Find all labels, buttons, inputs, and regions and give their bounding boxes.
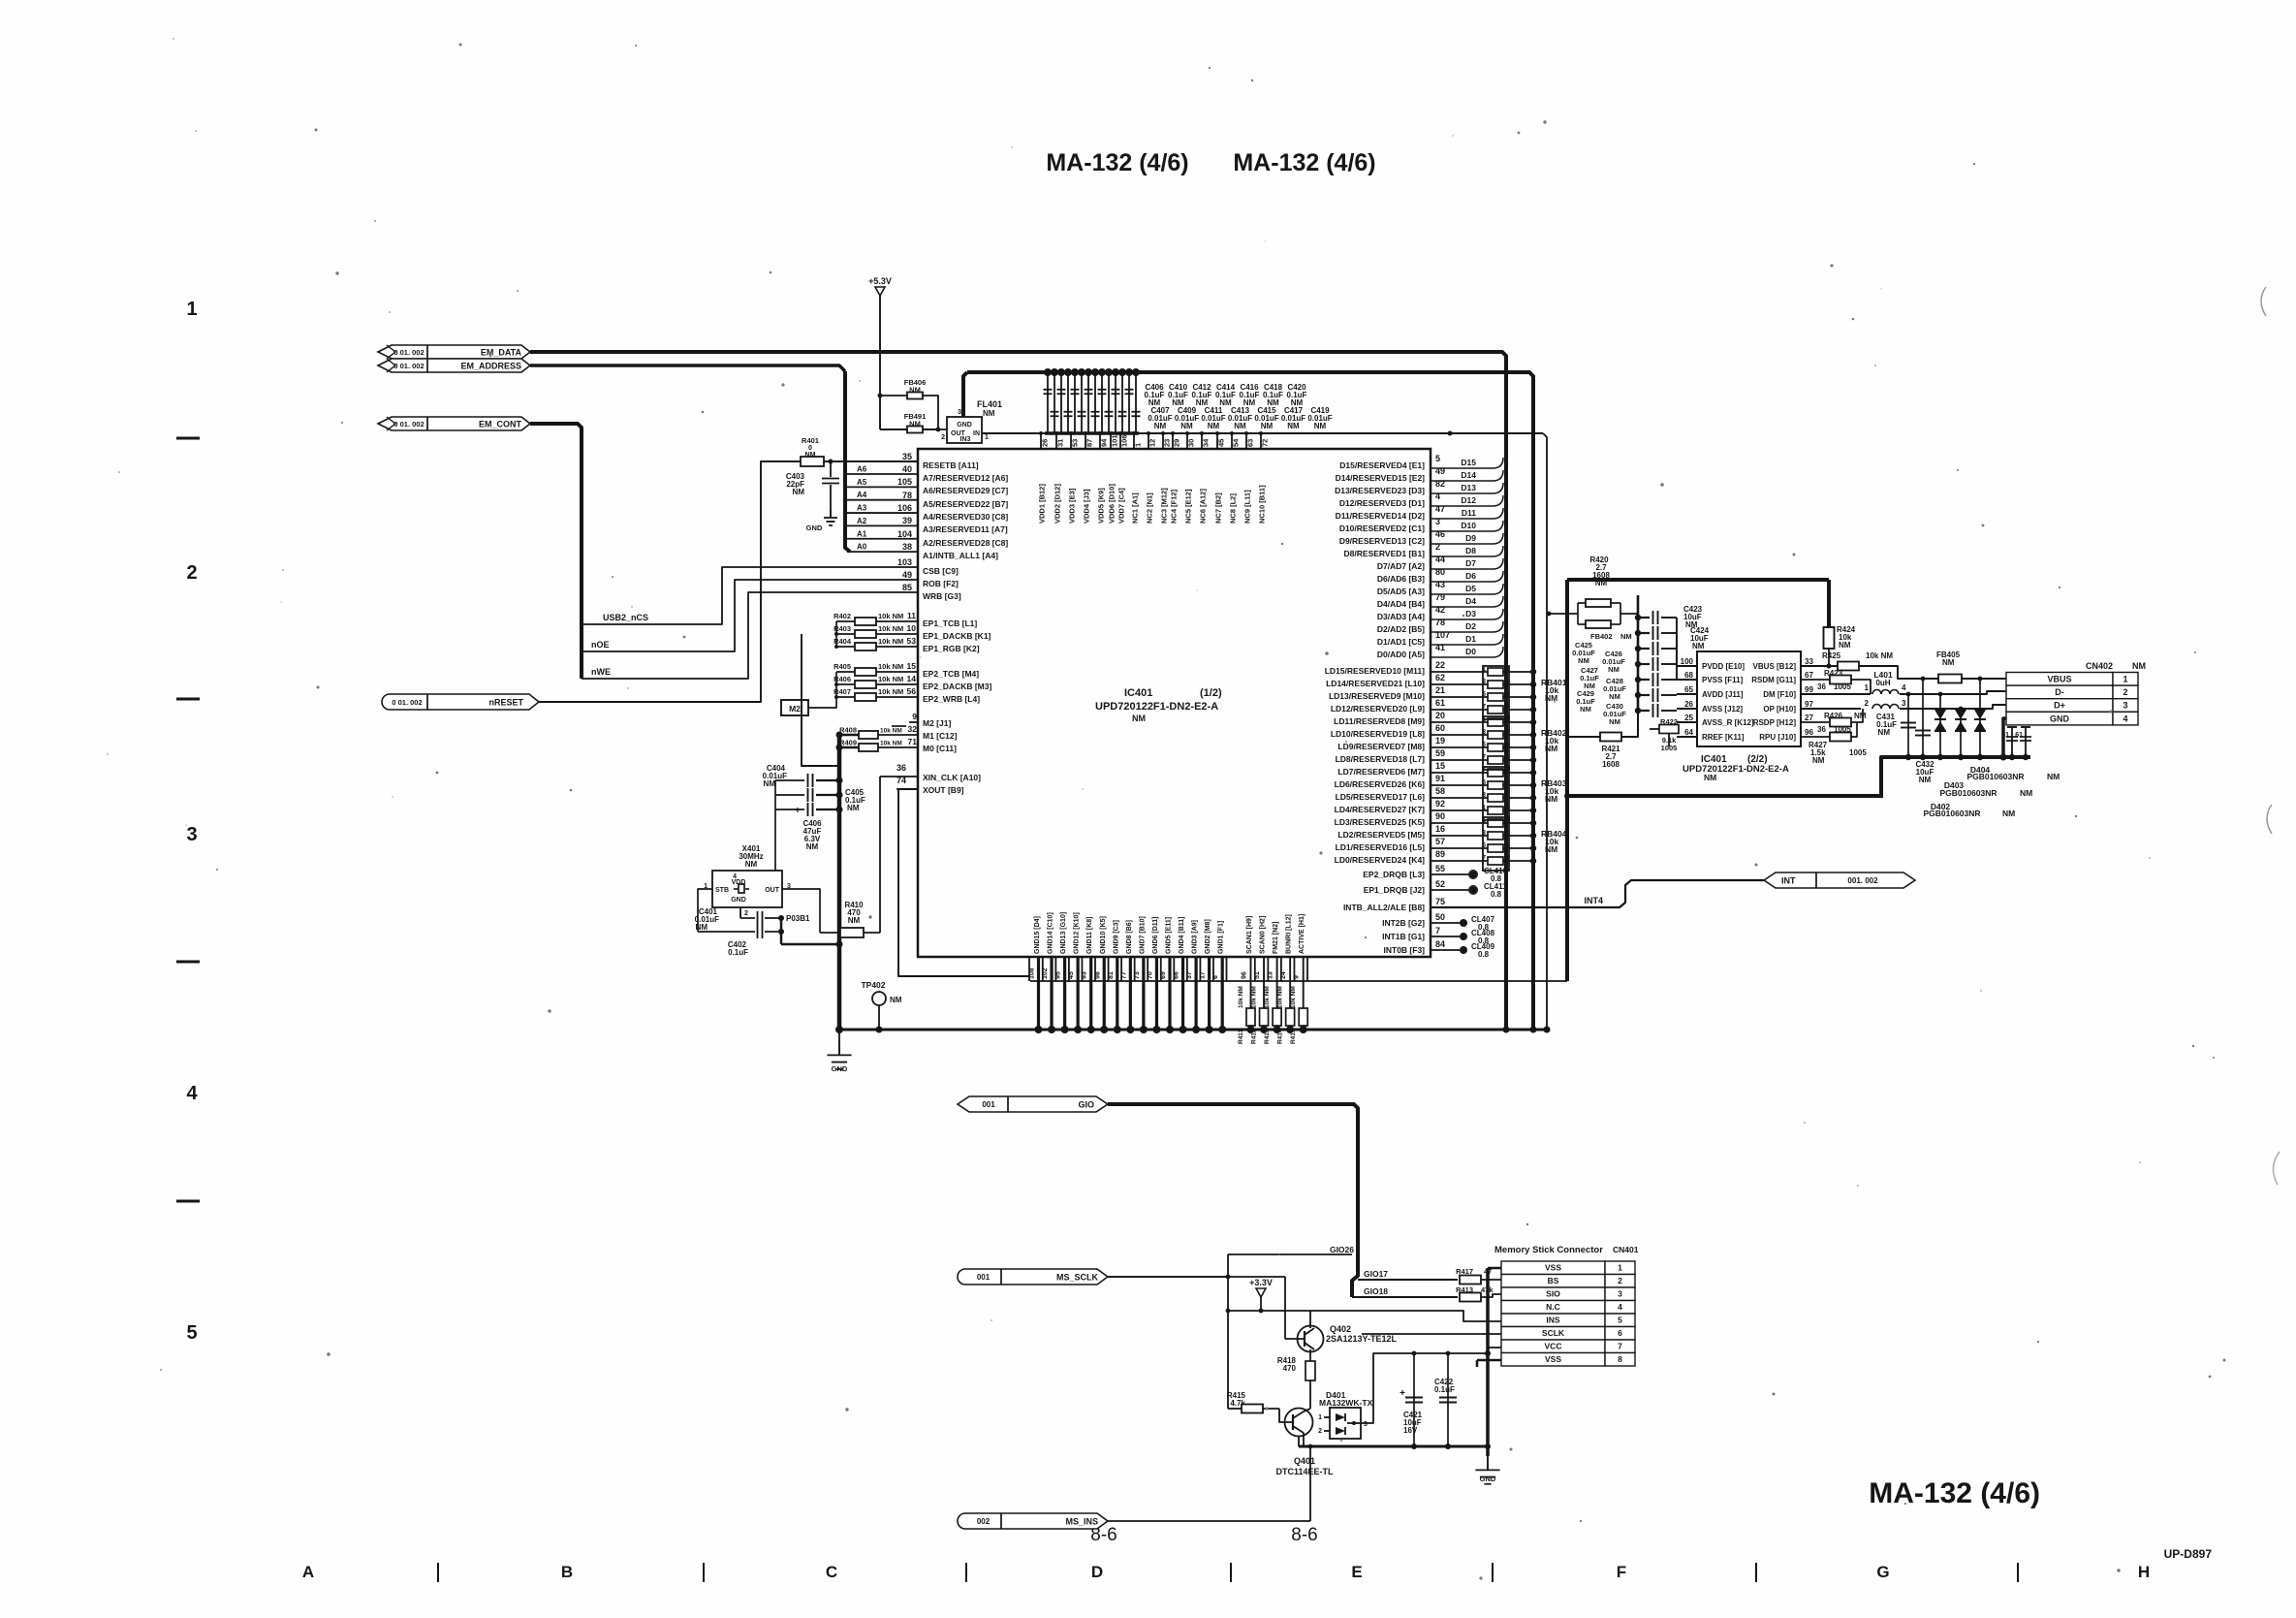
svg-text:107: 107 — [1435, 630, 1450, 640]
svg-text:0uH: 0uH — [1875, 679, 1890, 687]
svg-text:49: 49 — [902, 570, 912, 580]
svg-text:D15/RESERVED4 [E1]: D15/RESERVED4 [E1] — [1339, 460, 1425, 470]
svg-text:H: H — [2138, 1563, 2150, 1581]
svg-text:66: 66 — [1174, 971, 1180, 979]
svg-text:10k NM: 10k NM — [878, 662, 903, 671]
svg-text:R423: R423 — [1824, 669, 1843, 678]
svg-text:MS_INS: MS_INS — [1065, 1517, 1098, 1527]
svg-text:NC3 [M12]: NC3 [M12] — [1160, 488, 1169, 523]
svg-text:G: G — [1876, 1563, 1889, 1581]
svg-text:EM_CONT: EM_CONT — [479, 420, 522, 429]
svg-text:71: 71 — [908, 737, 918, 746]
svg-text:EP1_RGB [K2]: EP1_RGB [K2] — [923, 644, 980, 653]
svg-text:32: 32 — [908, 724, 918, 734]
svg-text:+5.3V: +5.3V — [868, 276, 892, 286]
svg-text:FM21 [N2]: FM21 [N2] — [1273, 922, 1279, 954]
svg-text:27: 27 — [1805, 714, 1813, 722]
svg-text:D9/RESERVED13 [C2]: D9/RESERVED13 [C2] — [1339, 536, 1425, 546]
svg-text:NM: NM — [1208, 422, 1220, 430]
svg-text:D12: D12 — [1461, 495, 1476, 505]
svg-text:1: 1 — [2123, 675, 2127, 684]
svg-text:NM: NM — [1234, 422, 1246, 430]
svg-text:58: 58 — [1435, 786, 1445, 796]
svg-text:NM: NM — [1839, 641, 1851, 650]
svg-text:NM: NM — [1132, 714, 1146, 723]
svg-text:EP2_TCB [M4]: EP2_TCB [M4] — [923, 669, 979, 679]
svg-text:2: 2 — [941, 434, 945, 441]
svg-text:10k NM: 10k NM — [1264, 986, 1271, 1008]
svg-text:10k NM: 10k NM — [1866, 651, 1893, 660]
svg-text:LD14/RESERVED21 [L10]: LD14/RESERVED21 [L10] — [1326, 679, 1425, 688]
svg-text:13: 13 — [1268, 971, 1274, 979]
svg-text:RREF [K11]: RREF [K11] — [1702, 733, 1745, 742]
svg-text:73: 73 — [1134, 971, 1141, 979]
svg-text:36: 36 — [1817, 682, 1826, 691]
svg-text:10k NM: 10k NM — [878, 637, 903, 646]
svg-text:NM: NM — [1578, 656, 1589, 665]
svg-text:99: 99 — [1805, 685, 1813, 694]
svg-text:LD4/RESERVED27 [K7]: LD4/RESERVED27 [K7] — [1335, 805, 1426, 814]
svg-text:GND11 [K8]: GND11 [K8] — [1086, 916, 1093, 954]
svg-text:26: 26 — [1684, 700, 1693, 709]
svg-text:4: 4 — [1435, 492, 1440, 501]
svg-text:D13: D13 — [1461, 483, 1476, 492]
svg-text:NC6 [A12]: NC6 [A12] — [1199, 489, 1208, 523]
svg-text:0 01. 002: 0 01. 002 — [393, 348, 424, 357]
svg-text:NM: NM — [2047, 772, 2060, 781]
svg-text:VSS: VSS — [1545, 1354, 1561, 1364]
svg-text:D8/RESERVED1 [B1]: D8/RESERVED1 [B1] — [1344, 549, 1426, 558]
svg-text:A4/RESERVED30 [C8]: A4/RESERVED30 [C8] — [923, 512, 1008, 522]
svg-text:MA132WK-TX: MA132WK-TX — [1319, 1398, 1373, 1408]
svg-text:LD10/RESERVED19 [L8]: LD10/RESERVED19 [L8] — [1331, 729, 1425, 739]
svg-text:2: 2 — [1435, 542, 1440, 552]
svg-text:NM: NM — [1609, 717, 1620, 726]
svg-text:60: 60 — [1435, 723, 1445, 733]
svg-text:10k NM: 10k NM — [880, 728, 902, 735]
svg-text:56: 56 — [907, 686, 917, 696]
svg-text:NM: NM — [1692, 642, 1705, 650]
svg-text:9: 9 — [1294, 975, 1301, 979]
svg-text:BUNRI [L12]: BUNRI [L12] — [1286, 914, 1293, 954]
svg-text:GND: GND — [731, 897, 746, 904]
svg-text:10k NM: 10k NM — [880, 741, 902, 747]
svg-text:19: 19 — [1435, 736, 1445, 746]
svg-text:10k NM: 10k NM — [878, 687, 903, 696]
svg-text:98: 98 — [1094, 971, 1101, 979]
svg-text:79: 79 — [1435, 592, 1445, 602]
svg-text:A5: A5 — [857, 478, 867, 487]
svg-text:D1/AD1 [C5]: D1/AD1 [C5] — [1377, 637, 1425, 647]
svg-text:NC1 [A1]: NC1 [A1] — [1131, 492, 1140, 523]
svg-text:WRB [G3]: WRB [G3] — [923, 591, 961, 601]
svg-text:DM [F10]: DM [F10] — [1763, 690, 1796, 699]
svg-text:10k NM: 10k NM — [1290, 986, 1297, 1008]
svg-text:69: 69 — [1160, 971, 1167, 979]
svg-text:GND13 [G10]: GND13 [G10] — [1060, 912, 1067, 954]
svg-text:INT0B [F3]: INT0B [F3] — [1384, 945, 1426, 955]
svg-text:2: 2 — [1318, 1428, 1322, 1435]
svg-text:EM_ADDRESS: EM_ADDRESS — [460, 362, 521, 371]
svg-text:NM: NM — [2002, 809, 2015, 818]
svg-text:UP-D897: UP-D897 — [2164, 1547, 2213, 1561]
svg-text:47: 47 — [1435, 504, 1445, 514]
svg-text:2: 2 — [2123, 687, 2127, 697]
svg-text:80: 80 — [1435, 567, 1445, 577]
svg-text:24: 24 — [1280, 971, 1287, 979]
svg-text:52: 52 — [1435, 879, 1445, 889]
svg-text:106: 106 — [897, 503, 912, 513]
svg-text:A3: A3 — [857, 504, 867, 513]
svg-text:LD1/RESERVED16 [L5]: LD1/RESERVED16 [L5] — [1336, 842, 1426, 852]
svg-text:A2/RESERVED28 [C8]: A2/RESERVED28 [C8] — [923, 538, 1008, 548]
svg-text:D0/AD0 [A5]: D0/AD0 [A5] — [1377, 650, 1425, 659]
svg-text:GND5 [E11]: GND5 [E11] — [1166, 917, 1173, 954]
svg-text:NM: NM — [1154, 422, 1167, 430]
svg-text:N.C: N.C — [1546, 1302, 1560, 1312]
svg-text:0.1uF: 0.1uF — [1434, 1385, 1455, 1394]
svg-text:6: 6 — [1212, 975, 1219, 979]
svg-text:001: 001 — [977, 1273, 991, 1282]
svg-text:EP2_DRQB [L3]: EP2_DRQB [L3] — [1363, 870, 1425, 879]
svg-text:45: 45 — [1068, 971, 1075, 979]
svg-text:EP1_DACKB [K1]: EP1_DACKB [K1] — [923, 631, 991, 641]
svg-text:6: 6 — [1618, 1328, 1622, 1338]
svg-text:VDD3 [E3]: VDD3 [E3] — [1068, 488, 1077, 523]
svg-text:AVSS [J12]: AVSS [J12] — [1702, 705, 1743, 714]
svg-text:LD5/RESERVED17 [L6]: LD5/RESERVED17 [L6] — [1336, 792, 1426, 802]
svg-text:65: 65 — [1684, 685, 1693, 694]
svg-text:10k NM: 10k NM — [878, 624, 903, 633]
svg-text:LD12/RESERVED20 [L9]: LD12/RESERVED20 [L9] — [1331, 704, 1425, 714]
svg-text:100: 100 — [1681, 657, 1694, 666]
svg-text:GND15 [D4]: GND15 [D4] — [1034, 916, 1041, 954]
svg-text:A1/INTB_ALL1 [A4]: A1/INTB_ALL1 [A4] — [923, 551, 998, 560]
svg-text:25: 25 — [1684, 714, 1693, 722]
svg-text:104: 104 — [897, 529, 912, 539]
svg-text:90: 90 — [1435, 811, 1445, 821]
svg-text:62: 62 — [1435, 673, 1445, 682]
svg-text:IC401: IC401 — [1124, 687, 1152, 699]
svg-text:0 01. 002: 0 01. 002 — [393, 362, 424, 370]
svg-text:78: 78 — [1435, 618, 1445, 627]
svg-text:102: 102 — [1042, 968, 1049, 979]
svg-text:M1 [C12]: M1 [C12] — [923, 731, 958, 741]
svg-text:VBUS [B12]: VBUS [B12] — [1753, 662, 1797, 671]
svg-text:LD6/RESERVED26 [K6]: LD6/RESERVED26 [K6] — [1335, 779, 1426, 789]
svg-text:LD11/RESERVED8 [M9]: LD11/RESERVED8 [M9] — [1334, 716, 1425, 726]
svg-text:1005: 1005 — [1661, 744, 1678, 752]
svg-text:50: 50 — [1435, 912, 1445, 922]
svg-text:37: 37 — [1186, 971, 1193, 979]
svg-text:D10: D10 — [1461, 521, 1476, 530]
svg-text:3: 3 — [1435, 517, 1440, 526]
svg-text:NM: NM — [1545, 693, 1557, 703]
svg-text:INT4: INT4 — [1584, 896, 1603, 905]
svg-text:2: 2 — [744, 910, 748, 917]
svg-text:BS: BS — [1548, 1276, 1559, 1285]
svg-text:4: 4 — [1618, 1302, 1622, 1312]
svg-text:11: 11 — [907, 611, 916, 620]
svg-text:MA-132 (4/6): MA-132 (4/6) — [1046, 149, 1188, 176]
svg-text:7: 7 — [1435, 926, 1440, 936]
svg-text:NM: NM — [1180, 422, 1193, 430]
svg-text:GND: GND — [806, 523, 823, 532]
svg-text:PGB010603NR: PGB010603NR — [1939, 788, 1997, 798]
svg-text:NM: NM — [848, 916, 861, 925]
svg-text:7: 7 — [1618, 1342, 1622, 1351]
svg-text:51: 51 — [2001, 732, 2009, 739]
svg-text:GND14 [C10]: GND14 [C10] — [1048, 912, 1054, 954]
svg-text:EP1_DRQB [J2]: EP1_DRQB [J2] — [1364, 885, 1425, 895]
svg-text:NM: NM — [890, 996, 902, 1004]
svg-text:97: 97 — [1805, 700, 1813, 709]
svg-text:VBUS: VBUS — [2047, 675, 2071, 684]
svg-text:1: 1 — [1318, 1414, 1322, 1421]
svg-text:40: 40 — [902, 464, 912, 474]
svg-text:NM: NM — [1287, 422, 1300, 430]
svg-text:61: 61 — [1435, 698, 1445, 708]
svg-text:NM: NM — [1620, 632, 1632, 641]
svg-text:VDD1 [B12]: VDD1 [B12] — [1038, 484, 1047, 523]
svg-text:SIO: SIO — [1546, 1289, 1560, 1299]
svg-text:75: 75 — [1435, 897, 1445, 906]
svg-text:NM: NM — [1580, 705, 1591, 714]
svg-text:53: 53 — [907, 636, 917, 646]
svg-text:CSB [C9]: CSB [C9] — [923, 566, 959, 576]
svg-text:15: 15 — [1435, 761, 1445, 771]
svg-text:D: D — [1091, 1563, 1103, 1581]
svg-text:D+: D+ — [2054, 701, 2065, 711]
svg-text:NM: NM — [805, 452, 816, 459]
svg-text:51: 51 — [1254, 971, 1261, 979]
svg-text:470: 470 — [1283, 1364, 1297, 1373]
svg-text:GND6 [D11]: GND6 [D11] — [1152, 916, 1159, 954]
svg-text:VCC: VCC — [1545, 1342, 1562, 1351]
svg-text:33: 33 — [1805, 657, 1813, 666]
svg-text:D13/RESERVED23 [D3]: D13/RESERVED23 [D3] — [1335, 486, 1425, 495]
svg-text:64: 64 — [1684, 728, 1693, 737]
svg-text:CN402: CN402 — [2086, 661, 2113, 671]
svg-text:LD0/RESERVED24 [K4]: LD0/RESERVED24 [K4] — [1335, 855, 1426, 865]
svg-text:NC7 [B2]: NC7 [B2] — [1214, 492, 1223, 523]
svg-text:D3: D3 — [1465, 609, 1476, 619]
svg-text:VDD7 [C4]: VDD7 [C4] — [1117, 488, 1126, 523]
svg-text:8-6: 8-6 — [1291, 1525, 1317, 1545]
svg-text:D15: D15 — [1461, 458, 1476, 467]
svg-text:M2: M2 — [789, 704, 801, 714]
svg-text:A5/RESERVED22 [B7]: A5/RESERVED22 [B7] — [923, 499, 1008, 509]
svg-text:STB: STB — [715, 887, 729, 894]
svg-text:GND3 [A9]: GND3 [A9] — [1192, 920, 1199, 954]
svg-text:D-: D- — [2055, 687, 2064, 697]
svg-text:D7: D7 — [1465, 558, 1476, 568]
svg-text:INTB_ALL2/ALE [B8]: INTB_ALL2/ALE [B8] — [1343, 903, 1425, 912]
svg-text:1005: 1005 — [1834, 682, 1851, 691]
svg-text:0.8: 0.8 — [1491, 890, 1502, 899]
svg-text:A0: A0 — [857, 543, 867, 552]
svg-text:RESETB [A11]: RESETB [A11] — [923, 460, 979, 470]
svg-text:Q402: Q402 — [1330, 1324, 1351, 1334]
svg-text:INT2B [G2]: INT2B [G2] — [1382, 918, 1425, 928]
svg-text:GND8 [B6]: GND8 [B6] — [1126, 920, 1133, 954]
svg-text:10k NM: 10k NM — [878, 612, 903, 620]
svg-text:0: 0 — [808, 445, 812, 452]
svg-text:GND2 [M8]: GND2 [M8] — [1205, 919, 1211, 954]
svg-text:3: 3 — [1902, 699, 1906, 708]
svg-text:5: 5 — [1435, 454, 1440, 463]
svg-text:3: 3 — [2123, 701, 2127, 711]
svg-text:NM: NM — [1878, 728, 1891, 737]
svg-text:GND7 [B10]: GND7 [B10] — [1139, 916, 1146, 954]
svg-text:EP2_DACKB [M3]: EP2_DACKB [M3] — [923, 682, 991, 691]
svg-text:D14: D14 — [1461, 470, 1476, 480]
svg-text:44: 44 — [1435, 555, 1445, 564]
svg-text:96: 96 — [1805, 728, 1813, 737]
svg-text:EP1_TCB [L1]: EP1_TCB [L1] — [923, 619, 977, 628]
svg-text:81: 81 — [1108, 971, 1115, 979]
svg-text:+: + — [795, 806, 801, 816]
svg-text:0 01. 002: 0 01. 002 — [393, 420, 424, 428]
svg-text:LD9/RESERVED7 [M8]: LD9/RESERVED7 [M8] — [1337, 742, 1425, 751]
svg-text:70: 70 — [1147, 971, 1153, 979]
svg-text:MA-132 (4/6): MA-132 (4/6) — [1869, 1477, 2040, 1509]
svg-text:GND10 [K5]: GND10 [K5] — [1100, 916, 1107, 954]
svg-text:A2: A2 — [857, 517, 867, 525]
svg-text:SCLK: SCLK — [1542, 1328, 1565, 1338]
svg-text:(1/2): (1/2) — [1200, 687, 1222, 699]
svg-text:R401: R401 — [802, 436, 819, 445]
svg-text:10k NM: 10k NM — [1277, 986, 1284, 1008]
svg-text:A3/RESERVED11 [A7]: A3/RESERVED11 [A7] — [923, 524, 1008, 534]
svg-text:R405: R405 — [833, 662, 851, 671]
svg-text:EM_DATA: EM_DATA — [481, 348, 522, 358]
svg-text:M0 [C11]: M0 [C11] — [923, 744, 957, 753]
svg-text:XOUT [B9]: XOUT [B9] — [923, 785, 964, 795]
svg-text:NC2 [N1]: NC2 [N1] — [1146, 492, 1154, 523]
svg-text:82: 82 — [1435, 479, 1445, 489]
svg-text:0.8: 0.8 — [1478, 950, 1490, 959]
svg-text:NM: NM — [1812, 756, 1825, 765]
svg-text:21: 21 — [1435, 685, 1445, 695]
svg-text:NM: NM — [1261, 422, 1274, 430]
svg-text:59: 59 — [1435, 748, 1445, 758]
svg-text:5: 5 — [1618, 1316, 1622, 1325]
svg-text:ACTIVE [H1]: ACTIVE [H1] — [1299, 914, 1305, 954]
svg-text:2SA1213Y-TE12L: 2SA1213Y-TE12L — [1326, 1334, 1398, 1344]
svg-text:D4/AD4 [B4]: D4/AD4 [B4] — [1377, 599, 1425, 609]
svg-text:C: C — [826, 1563, 837, 1581]
svg-text:4: 4 — [1902, 683, 1906, 692]
svg-text:4: 4 — [186, 1083, 198, 1104]
svg-text:1005: 1005 — [1849, 748, 1867, 757]
svg-text:55: 55 — [1435, 864, 1445, 873]
svg-text:8: 8 — [1618, 1354, 1622, 1364]
svg-text:R411: R411 — [1238, 1029, 1244, 1044]
svg-text:SCAN0 [H2]: SCAN0 [H2] — [1260, 916, 1267, 954]
svg-text:SCAN1 [H9]: SCAN1 [H9] — [1246, 916, 1253, 954]
svg-text:15: 15 — [907, 661, 917, 671]
svg-text:1: 1 — [985, 434, 989, 441]
svg-text:A6/RESERVED29 [C7]: A6/RESERVED29 [C7] — [923, 486, 1008, 495]
svg-text:INT: INT — [1781, 876, 1796, 886]
svg-text:3: 3 — [958, 409, 961, 416]
svg-text:1608: 1608 — [1602, 760, 1620, 769]
svg-text:16: 16 — [1435, 824, 1445, 834]
svg-text:NM: NM — [1609, 692, 1620, 701]
svg-text:57: 57 — [1435, 837, 1445, 846]
svg-text:IN: IN — [973, 430, 980, 437]
svg-text:0.1uF: 0.1uF — [728, 948, 748, 957]
svg-text:002: 002 — [977, 1517, 991, 1526]
svg-text:35: 35 — [902, 452, 912, 461]
svg-text:Memory Stick Connector: Memory Stick Connector — [1494, 1245, 1603, 1255]
svg-text:43: 43 — [1435, 580, 1445, 589]
svg-text:AVDD [J11]: AVDD [J11] — [1702, 690, 1744, 699]
svg-text:A4: A4 — [857, 491, 867, 499]
svg-text:E: E — [1351, 1563, 1362, 1581]
svg-text:TP402: TP402 — [861, 980, 885, 990]
svg-text:4: 4 — [2123, 714, 2127, 723]
svg-text:EP2_WRB [L4]: EP2_WRB [L4] — [923, 694, 980, 704]
svg-text:OP [H10]: OP [H10] — [1763, 705, 1796, 714]
svg-text:84: 84 — [1435, 939, 1445, 949]
svg-text:P03B1: P03B1 — [786, 914, 810, 923]
svg-text:10: 10 — [907, 623, 917, 633]
svg-text:D6/AD6 [B3]: D6/AD6 [B3] — [1377, 574, 1425, 584]
svg-text:NM: NM — [745, 860, 758, 869]
svg-text:14: 14 — [907, 674, 917, 683]
svg-text:NM: NM — [1314, 422, 1327, 430]
svg-text:61: 61 — [2015, 732, 2023, 739]
svg-text:LD8/RESERVED18 [L7]: LD8/RESERVED18 [L7] — [1336, 754, 1426, 764]
svg-text:PVDD [E10]: PVDD [E10] — [1702, 662, 1745, 671]
svg-text:NM: NM — [1919, 776, 1932, 784]
svg-text:49: 49 — [1435, 466, 1445, 476]
svg-text:GIO17: GIO17 — [1364, 1269, 1388, 1279]
svg-text:LD7/RESERVED6 [M7]: LD7/RESERVED6 [M7] — [1337, 767, 1425, 777]
svg-text:NM: NM — [1545, 744, 1557, 753]
svg-text:LD15/RESERVED10 [M11]: LD15/RESERVED10 [M11] — [1325, 666, 1425, 676]
svg-text:38: 38 — [902, 542, 912, 552]
svg-text:D5/AD5 [A3]: D5/AD5 [A3] — [1377, 587, 1425, 596]
svg-text:89: 89 — [1435, 849, 1445, 859]
svg-text:D2/AD2 [B5]: D2/AD2 [B5] — [1377, 624, 1425, 634]
svg-text:OUT: OUT — [765, 887, 780, 894]
svg-text:D0: D0 — [1465, 647, 1476, 656]
svg-text:AVSS_R [K12]: AVSS_R [K12] — [1702, 718, 1754, 727]
svg-text:F: F — [1617, 1563, 1626, 1581]
svg-text:NC5 [E12]: NC5 [E12] — [1184, 489, 1193, 523]
svg-text:NC4 [F12]: NC4 [F12] — [1170, 489, 1179, 523]
svg-text:GIO26: GIO26 — [1330, 1245, 1354, 1254]
svg-text:D1: D1 — [1465, 634, 1476, 644]
svg-text:20: 20 — [1435, 711, 1445, 720]
svg-text:+3.3V: +3.3V — [1249, 1278, 1273, 1287]
svg-text:D14/RESERVED15 [E2]: D14/RESERVED15 [E2] — [1336, 473, 1426, 483]
svg-text:NM: NM — [1942, 658, 1955, 667]
svg-text:A7/RESERVED12 [A6]: A7/RESERVED12 [A6] — [923, 473, 1008, 483]
svg-text:CN401: CN401 — [1613, 1245, 1639, 1254]
svg-text:D10/RESERVED2 [C1]: D10/RESERVED2 [C1] — [1339, 523, 1425, 533]
svg-text:1: 1 — [1618, 1263, 1622, 1273]
svg-text:10k NM: 10k NM — [878, 675, 903, 683]
svg-text:9: 9 — [912, 712, 917, 721]
svg-text:GND4 [B11]: GND4 [B11] — [1179, 916, 1185, 954]
svg-text:A: A — [302, 1563, 314, 1581]
svg-text:NC8 [L2]: NC8 [L2] — [1229, 493, 1238, 523]
svg-text:93: 93 — [1082, 971, 1088, 979]
